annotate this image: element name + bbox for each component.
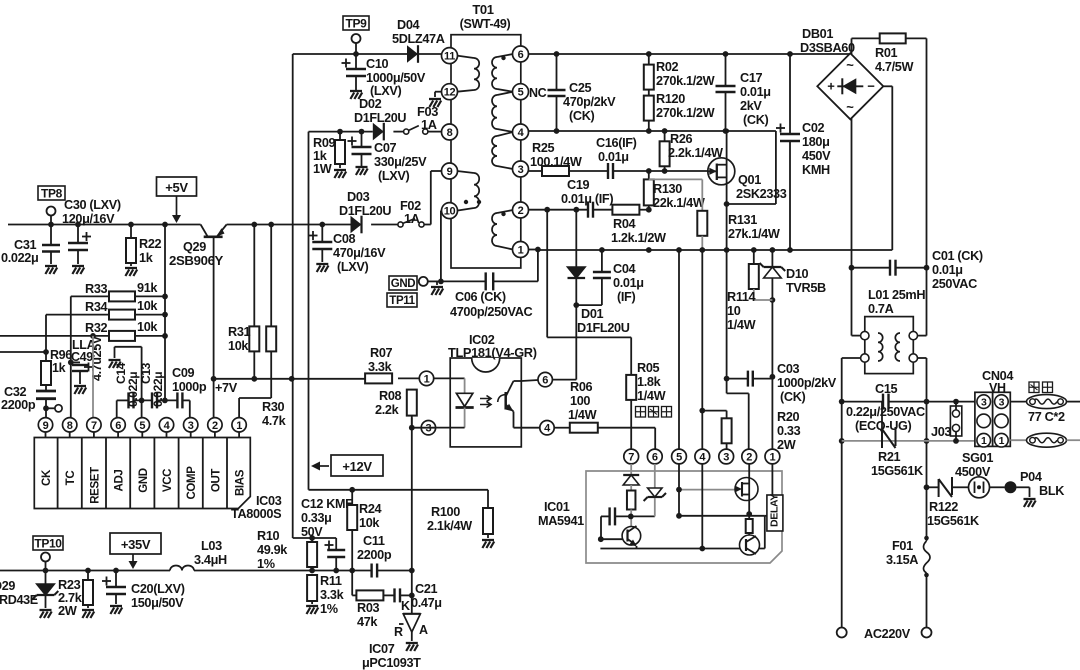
svg-text:R131: R131 [728,213,757,227]
svg-text:0.22μ/250VAC: 0.22μ/250VAC [846,405,925,419]
svg-text:C10: C10 [366,57,389,71]
svg-text:R96: R96 [50,348,72,362]
svg-text:1k: 1k [139,251,154,265]
svg-text:2kV: 2kV [740,99,762,113]
svg-text:(CK): (CK) [780,390,806,404]
svg-text:D04: D04 [397,18,420,32]
svg-text:C17: C17 [740,71,763,85]
svg-text:C03: C03 [777,362,800,376]
svg-text:270k.1/2W: 270k.1/2W [656,74,715,88]
svg-text:8: 8 [447,127,453,139]
svg-text:11: 11 [444,51,455,63]
svg-text:C21: C21 [415,582,438,596]
svg-text:1000p: 1000p [172,380,207,394]
svg-text:1.2k.1/2W: 1.2k.1/2W [611,231,666,245]
svg-text:1/4W: 1/4W [637,389,666,403]
svg-text:0.01μ: 0.01μ [932,263,963,277]
svg-text:NC: NC [529,86,547,100]
svg-text:2.2k: 2.2k [375,403,400,417]
svg-text:27k.1/4W: 27k.1/4W [728,227,780,241]
svg-text:R06: R06 [570,380,593,394]
svg-text:R25: R25 [532,141,555,155]
svg-text:180μ: 180μ [802,135,830,149]
svg-text:(CK): (CK) [569,109,595,123]
svg-text:+35V: +35V [121,537,151,552]
svg-text:91k: 91k [137,281,158,295]
svg-text:1k: 1k [52,361,66,375]
svg-text:1A: 1A [421,117,437,132]
svg-text:10: 10 [727,304,741,318]
svg-text:C20(LXV): C20(LXV) [131,582,185,596]
svg-text:C06 (CK): C06 (CK) [455,290,506,304]
svg-text:D1FL20U: D1FL20U [339,204,391,218]
svg-text:Q29: Q29 [183,240,206,254]
svg-text:2: 2 [518,205,524,217]
svg-text:4.7/5W: 4.7/5W [875,60,913,74]
svg-text:77 C*2: 77 C*2 [1028,410,1065,424]
svg-text:3: 3 [426,423,432,435]
svg-text:49.9k: 49.9k [257,543,288,557]
svg-text:C16(IF): C16(IF) [596,136,637,150]
svg-text:0.022μ: 0.022μ [1,251,38,265]
svg-text:C19: C19 [567,178,590,192]
svg-text:K: K [401,599,410,613]
svg-text:1%: 1% [320,602,338,616]
svg-text:10k: 10k [359,516,380,530]
svg-text:9: 9 [43,420,49,432]
svg-text:D29: D29 [0,579,15,593]
svg-text:TP10: TP10 [34,536,62,550]
svg-text:A: A [419,623,428,637]
svg-text:0.022μ: 0.022μ [151,372,165,407]
svg-text:10k: 10k [228,339,249,353]
svg-text:R26: R26 [670,132,693,146]
svg-text:D3SBA60: D3SBA60 [800,41,855,55]
svg-text:D01: D01 [581,307,604,321]
svg-text:C25: C25 [569,81,592,95]
svg-text:D1FL20U: D1FL20U [354,111,406,125]
svg-text:~: ~ [846,99,854,114]
svg-text:R11: R11 [320,574,342,588]
svg-text:100: 100 [570,394,590,408]
svg-text:1.8k: 1.8k [637,375,662,389]
svg-text:3: 3 [981,397,987,409]
svg-text:3: 3 [999,397,1005,409]
svg-text:12: 12 [444,87,456,99]
svg-text:3.15A: 3.15A [886,553,918,567]
svg-text:470μ/16V: 470μ/16V [333,246,386,260]
svg-text:R100: R100 [431,505,460,519]
svg-text:+5V: +5V [165,180,188,195]
svg-text:5: 5 [139,420,145,432]
svg-text:R01: R01 [875,46,898,60]
svg-text:C07: C07 [374,141,397,155]
svg-text:R120: R120 [656,92,685,106]
svg-text:0.01μ: 0.01μ [740,85,771,99]
svg-text:3.4μH: 3.4μH [194,553,227,567]
svg-text:R20: R20 [777,410,800,424]
svg-text:C11: C11 [363,534,385,548]
svg-text:3.3k: 3.3k [320,588,345,602]
svg-text:IC07: IC07 [369,642,395,656]
svg-text:MA5941: MA5941 [538,514,584,528]
svg-text:C12 KME: C12 KME [301,497,353,511]
svg-text:2: 2 [746,451,752,463]
svg-text:9: 9 [447,166,453,178]
svg-text:TP8: TP8 [41,186,63,200]
svg-text:470p/2kV: 470p/2kV [563,95,616,109]
svg-text:VH: VH [989,381,1006,395]
svg-text:R05: R05 [637,361,660,375]
svg-text:2.1k/4W: 2.1k/4W [427,519,472,533]
svg-text:6: 6 [652,451,658,463]
svg-text:TVR5B: TVR5B [786,281,826,295]
svg-text:R08: R08 [379,389,402,403]
svg-text:P04: P04 [1020,470,1042,484]
svg-text:5DLZ47A: 5DLZ47A [392,32,445,46]
svg-text:R04: R04 [613,217,636,231]
svg-text:R114: R114 [727,290,756,304]
svg-text:J03: J03 [931,425,951,439]
svg-text:C30 (LXV): C30 (LXV) [64,198,121,212]
svg-text:1: 1 [999,435,1005,447]
svg-text:450V: 450V [802,149,831,163]
svg-text:3: 3 [188,420,194,432]
svg-text:2200p: 2200p [357,548,392,562]
svg-text:ADJ: ADJ [114,470,126,492]
svg-text:(SWT-49): (SWT-49) [460,17,511,31]
svg-text:10k: 10k [137,320,158,334]
svg-text:T01: T01 [472,2,493,17]
svg-text:6: 6 [542,375,548,387]
svg-text:1/4W: 1/4W [568,408,597,422]
svg-text:47k: 47k [357,615,378,629]
svg-text:250VAC: 250VAC [932,277,977,291]
svg-text:0.01μ (IF): 0.01μ (IF) [561,192,613,206]
svg-text:4.7k: 4.7k [262,414,287,428]
svg-text:15G561K: 15G561K [927,514,980,528]
svg-text:OUT: OUT [210,469,222,493]
svg-text:100.1/4W: 100.1/4W [530,155,582,169]
svg-text:C15: C15 [875,382,898,396]
svg-text:TP9: TP9 [346,16,368,30]
svg-text:1: 1 [518,244,524,256]
svg-text:DB01: DB01 [802,27,833,41]
svg-text:1: 1 [424,373,430,385]
svg-text:R: R [394,625,403,639]
svg-text:TA8000S: TA8000S [231,507,281,521]
svg-text:R10: R10 [257,529,280,543]
svg-text:−: − [867,78,875,93]
svg-text:TC: TC [65,471,77,486]
svg-text:2200p: 2200p [1,398,36,412]
svg-text:2SB906Y: 2SB906Y [169,253,224,268]
svg-text:GND: GND [391,278,416,290]
svg-text:2SK2333: 2SK2333 [736,187,787,201]
svg-text:C04: C04 [613,262,636,276]
svg-text:R03: R03 [357,601,380,615]
svg-text:+: + [827,78,835,93]
svg-text:R130: R130 [653,182,682,196]
svg-text:3: 3 [518,164,524,176]
svg-text:2.2k.1/4W: 2.2k.1/4W [668,146,723,160]
svg-text:R122: R122 [929,500,958,514]
svg-text:R21: R21 [878,450,901,464]
svg-text:DELAY: DELAY [769,494,781,527]
svg-text:4700p/250VAC: 4700p/250VAC [450,305,533,319]
svg-text:5: 5 [518,87,524,99]
svg-text:R09: R09 [313,136,336,150]
svg-text:AC220V: AC220V [864,627,911,641]
svg-text:2: 2 [212,420,218,432]
svg-text:TLP181(V4-GR): TLP181(V4-GR) [448,345,537,360]
svg-text:KMH: KMH [802,163,830,177]
svg-text:C09: C09 [172,366,195,380]
svg-text:0.01μ: 0.01μ [598,150,629,164]
svg-text:7: 7 [91,420,97,432]
svg-text:0.47μ: 0.47μ [411,596,442,610]
svg-text:50V: 50V [301,525,323,539]
svg-text:(LXV): (LXV) [378,169,410,183]
svg-text:0.022μ: 0.022μ [126,372,140,407]
svg-text:R22: R22 [139,237,162,251]
svg-text:D02: D02 [359,96,382,111]
svg-text:1: 1 [236,420,242,432]
svg-text:COMP: COMP [186,466,198,500]
svg-text:~: ~ [846,57,854,72]
svg-text:BIAS: BIAS [235,469,247,496]
svg-text:C08: C08 [333,232,356,246]
svg-text:C02: C02 [802,121,825,135]
svg-text:2W: 2W [58,603,78,618]
svg-text:+7V: +7V [215,381,238,395]
svg-text:SG01: SG01 [962,451,993,465]
svg-text:BLK: BLK [1039,484,1065,498]
svg-text:R02: R02 [656,60,679,74]
svg-text:C32: C32 [4,385,27,399]
svg-text:R07: R07 [370,346,393,360]
svg-text:6: 6 [115,420,121,432]
svg-text:μPC1093T: μPC1093T [362,656,421,670]
svg-text:120μ/16V: 120μ/16V [62,212,115,226]
svg-text:6: 6 [518,49,524,61]
svg-text:D10: D10 [786,267,809,281]
svg-text:L03: L03 [201,539,222,553]
svg-text:10: 10 [444,206,456,218]
svg-text:0.33μ: 0.33μ [301,511,331,525]
svg-text:1W: 1W [313,162,332,176]
svg-text:D1FL20U: D1FL20U [577,321,630,335]
svg-text:R30: R30 [262,400,285,414]
svg-text:1%: 1% [257,557,275,571]
svg-text:1/4W: 1/4W [727,318,756,332]
svg-text:R33: R33 [85,282,108,296]
svg-text:CK: CK [41,469,53,486]
svg-text:2W: 2W [777,438,796,452]
svg-text:F02: F02 [400,199,421,213]
svg-text:C01 (CK): C01 (CK) [932,249,983,263]
svg-text:3.3k: 3.3k [368,360,393,374]
svg-text:1: 1 [770,451,776,463]
svg-text:4500V: 4500V [955,465,991,479]
svg-text:C31: C31 [14,238,37,252]
svg-text:0.7A: 0.7A [868,302,894,316]
svg-text:L01 25mH: L01 25mH [868,288,925,302]
svg-text:15G561K: 15G561K [871,464,924,478]
svg-text:IC03: IC03 [256,494,282,508]
svg-text:0.33: 0.33 [777,424,801,438]
svg-text:0.01μ: 0.01μ [613,276,644,290]
svg-text:7: 7 [628,451,634,463]
svg-text:1: 1 [981,435,987,447]
svg-text:22k.1/4W: 22k.1/4W [653,196,705,210]
svg-text:150μ/50V: 150μ/50V [131,596,184,610]
svg-text:270k.1/2W: 270k.1/2W [656,106,715,120]
svg-text:D03: D03 [347,189,370,204]
svg-text:330μ/25V: 330μ/25V [374,155,427,169]
svg-text:RESET: RESET [89,467,101,504]
svg-text:F01: F01 [892,539,913,553]
svg-text:1000μ/50V: 1000μ/50V [366,71,426,85]
svg-text:1k: 1k [313,149,328,163]
svg-text:5: 5 [676,451,682,463]
svg-text:IC01: IC01 [544,500,570,514]
svg-text:VCC: VCC [162,469,174,492]
svg-text:10k: 10k [137,299,158,313]
svg-text:R31: R31 [228,325,251,339]
svg-text:(IF): (IF) [617,290,635,304]
svg-text:Q01: Q01 [738,173,761,187]
svg-text:R32: R32 [85,321,108,335]
svg-text:R34: R34 [85,300,108,314]
svg-text:(CK): (CK) [743,113,769,127]
svg-text:+12V: +12V [342,459,372,474]
svg-text:RD43E: RD43E [0,593,38,607]
svg-text:TP11: TP11 [389,295,415,307]
svg-text:(LXV): (LXV) [337,260,369,274]
svg-text:3: 3 [723,451,729,463]
svg-text:1000p/2kV: 1000p/2kV [777,376,837,390]
svg-text:8: 8 [67,420,73,432]
svg-text:R24: R24 [359,502,382,516]
svg-text:GND: GND [138,468,150,493]
